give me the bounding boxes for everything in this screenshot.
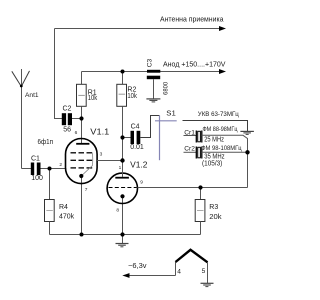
svg-text:C1: C1 bbox=[31, 156, 40, 163]
svg-text:C2: C2 bbox=[63, 106, 72, 113]
svg-text:Cr2: Cr2 bbox=[184, 146, 195, 153]
svg-text:Cr1: Cr1 bbox=[184, 130, 195, 137]
svg-text:0.01: 0.01 bbox=[130, 144, 144, 151]
svg-text:3: 3 bbox=[100, 152, 103, 158]
svg-text:ФМ 98-108МГц: ФМ 98-108МГц bbox=[201, 145, 242, 152]
svg-text:56: 56 bbox=[63, 127, 71, 134]
svg-text:C3: C3 bbox=[147, 58, 154, 67]
svg-text:7: 7 bbox=[85, 187, 88, 193]
svg-text:(105/3): (105/3) bbox=[202, 161, 222, 168]
svg-text:10k: 10k bbox=[127, 93, 137, 100]
svg-text:УКВ 63-73МГц: УКВ 63-73МГц bbox=[198, 111, 239, 118]
svg-text:470k: 470k bbox=[59, 214, 75, 221]
svg-text:9: 9 bbox=[140, 179, 143, 185]
svg-text:6800: 6800 bbox=[162, 81, 169, 94]
svg-text:S1: S1 bbox=[166, 111, 176, 118]
svg-text:100: 100 bbox=[31, 175, 43, 182]
svg-text:4: 4 bbox=[177, 268, 181, 275]
svg-text:ФМ 88-98МГц: ФМ 88-98МГц bbox=[203, 126, 238, 133]
svg-text:8: 8 bbox=[116, 207, 119, 213]
svg-text:V1.1: V1.1 bbox=[90, 127, 110, 136]
svg-text:10k: 10k bbox=[88, 95, 98, 102]
svg-text:R4: R4 bbox=[59, 204, 68, 211]
svg-text:25 MHz: 25 MHz bbox=[204, 137, 224, 144]
svg-text:6ф1п: 6ф1п bbox=[38, 137, 54, 146]
svg-text:Анод +150....+170V: Анод +150....+170V bbox=[163, 59, 226, 68]
svg-text:2: 2 bbox=[59, 162, 62, 168]
svg-text:Антенна приемника: Антенна приемника bbox=[160, 14, 224, 23]
svg-text:V1.2: V1.2 bbox=[130, 161, 148, 170]
svg-text:1: 1 bbox=[119, 165, 122, 171]
svg-text:R3: R3 bbox=[209, 204, 218, 211]
svg-text:20k: 20k bbox=[209, 214, 222, 221]
svg-text:C4: C4 bbox=[131, 124, 140, 131]
svg-text:−6,3v: −6,3v bbox=[128, 261, 147, 270]
svg-text:Ant1: Ant1 bbox=[25, 92, 39, 99]
svg-text:6: 6 bbox=[75, 130, 78, 136]
svg-text:5: 5 bbox=[202, 268, 206, 275]
